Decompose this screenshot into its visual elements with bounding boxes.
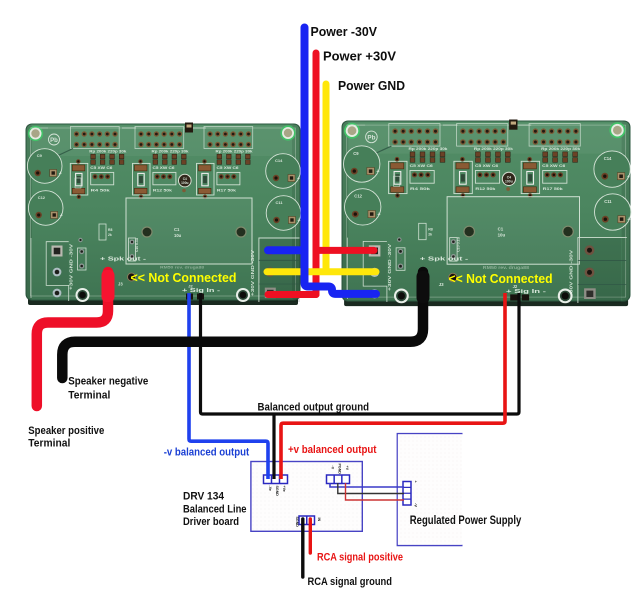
svg-text:-Ve: -Ve (268, 486, 272, 491)
svg-text:Terminal: Terminal (28, 438, 70, 450)
svg-text:J3: J3 (118, 282, 123, 287)
svg-text:R17 50k: R17 50k (543, 186, 564, 191)
svg-text:-v balanced output: -v balanced output (164, 446, 250, 458)
svg-text:+: + (627, 217, 630, 223)
svg-text:RCA signal ground: RCA signal ground (308, 576, 393, 588)
svg-text:PGND: PGND (338, 464, 342, 475)
svg-text:C1: C1 (498, 226, 504, 231)
svg-text:+30V GND -30V: +30V GND -30V (569, 249, 574, 297)
svg-text:Rp 200k 220p 30k: Rp 200k 220p 30k (152, 150, 189, 154)
svg-text:C14: C14 (275, 158, 283, 163)
svg-text:J3: J3 (439, 282, 444, 287)
svg-text:C9: C9 (353, 151, 359, 156)
svg-text:+: + (377, 212, 380, 218)
svg-text:Rp 200k 220p 30k: Rp 200k 220p 30k (474, 147, 514, 151)
svg-text:+: + (627, 174, 630, 180)
svg-text:C1: C1 (174, 227, 180, 232)
svg-text:+V: +V (345, 466, 349, 471)
svg-text:Rp 200k 220p 30k: Rp 200k 220p 30k (89, 150, 126, 154)
svg-text:C5 XW C6: C5 XW C6 (153, 166, 175, 170)
svg-text:Pb: Pb (367, 134, 375, 141)
svg-text:+ Spk out -: + Spk out - (420, 257, 469, 263)
svg-text:+: + (298, 218, 301, 224)
svg-text:100u: 100u (181, 181, 188, 185)
svg-text:R12 50k: R12 50k (153, 189, 173, 193)
svg-text:+ Sig In -: + Sig In - (506, 289, 546, 295)
svg-text:C11: C11 (276, 200, 284, 205)
svg-text:R4 50k: R4 50k (91, 189, 111, 193)
svg-text:Power +30V: Power +30V (323, 48, 396, 63)
svg-text:Speaker positive: Speaker positive (28, 425, 104, 437)
svg-text:SGND: SGND (295, 517, 299, 528)
svg-text:Speaker negative: Speaker negative (68, 375, 148, 387)
svg-text:C14: C14 (604, 156, 612, 161)
svg-text:C5 XW C6: C5 XW C6 (410, 164, 433, 168)
svg-text:Rp 200k 220p 30k: Rp 200k 220p 30k (216, 150, 253, 154)
svg-text:C9: C9 (37, 153, 43, 158)
svg-text:RCA signal positive: RCA signal positive (317, 552, 403, 564)
svg-text:+ Spk out -: + Spk out - (100, 257, 146, 263)
svg-text:Balanced Line: Balanced Line (183, 503, 247, 515)
svg-text:2k: 2k (108, 233, 112, 237)
svg-text:10u: 10u (174, 233, 182, 238)
svg-text:R8: R8 (108, 228, 112, 232)
svg-text:<< Not Connected: << Not Connected (131, 270, 237, 285)
svg-text:DRV 134: DRV 134 (183, 490, 224, 502)
svg-text:+30V GND -30V: +30V GND -30V (69, 244, 74, 290)
svg-text:R12 50k: R12 50k (475, 186, 496, 191)
svg-text:Balanced output ground: Balanced output ground (258, 402, 370, 414)
svg-text:Regulated Power Supply: Regulated Power Supply (410, 513, 522, 527)
svg-text:+: + (376, 169, 379, 175)
svg-text:C12: C12 (38, 195, 46, 200)
svg-text:C5 XW C6: C5 XW C6 (475, 164, 498, 168)
svg-text:RM50 rev. druga88: RM50 rev. druga88 (483, 265, 530, 270)
svg-text:R8: R8 (428, 227, 433, 231)
svg-text:100u: 100u (505, 179, 513, 183)
svg-text:Rp 200k 220p 30k: Rp 200k 220p 30k (541, 147, 581, 151)
svg-text:+: + (60, 213, 63, 219)
svg-text:+30V GND -30V: +30V GND -30V (387, 242, 392, 290)
svg-text:+30V GND -30V: +30V GND -30V (250, 250, 255, 296)
svg-text:Power -30V: Power -30V (311, 24, 378, 39)
svg-text:C5 XW C6: C5 XW C6 (217, 166, 239, 170)
svg-text:-V: -V (414, 503, 419, 507)
svg-text:Pb: Pb (50, 138, 58, 144)
svg-text:+: + (59, 171, 62, 177)
svg-text:Driver board: Driver board (183, 516, 239, 528)
svg-text:+Ve: +Ve (282, 486, 286, 492)
svg-text:R17 50k: R17 50k (217, 189, 237, 193)
svg-text:Terminal: Terminal (68, 389, 110, 401)
svg-text:C12: C12 (354, 194, 362, 199)
svg-text:C5 XW C6: C5 XW C6 (542, 164, 565, 168)
svg-text:RM50 rev. druga88: RM50 rev. druga88 (160, 265, 205, 270)
svg-text:SGND: SGND (275, 486, 279, 497)
svg-text:2k: 2k (428, 233, 432, 237)
svg-text:C11: C11 (604, 199, 612, 204)
svg-text:-V: -V (331, 466, 335, 470)
svg-text:IN: IN (317, 518, 321, 522)
svg-text:10u: 10u (498, 233, 506, 238)
svg-text:C5 XW C6: C5 XW C6 (90, 166, 112, 170)
svg-text:R4 50k: R4 50k (410, 186, 431, 191)
svg-text:+: + (297, 176, 300, 182)
svg-text:Rp 200k 220p 30k: Rp 200k 220p 30k (409, 147, 449, 151)
svg-text:+v balanced output: +v balanced output (288, 444, 377, 456)
svg-text:Power GND: Power GND (338, 78, 405, 93)
svg-text:<< Not Connected: << Not Connected (449, 271, 553, 286)
